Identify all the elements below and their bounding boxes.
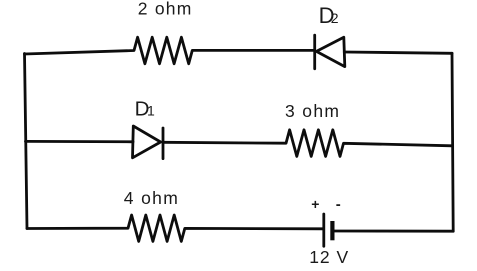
svg-text:+: + [311,196,319,212]
svg-text:3 ohm: 3 ohm [285,101,339,121]
svg-text:2: 2 [331,10,339,26]
svg-text:2 ohm: 2 ohm [138,0,192,18]
svg-text:4 ohm: 4 ohm [124,188,178,208]
svg-text:-: - [336,196,341,213]
svg-text:12 V: 12 V [309,247,348,267]
svg-text:1: 1 [147,102,155,118]
